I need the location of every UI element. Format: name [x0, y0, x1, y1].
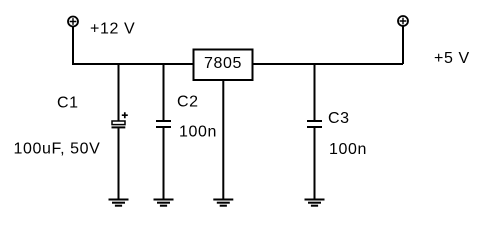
wire output bus to C3 — [314, 63, 316, 121]
svg-text:100n: 100n — [329, 141, 367, 158]
wire C2 to ground — [163, 128, 165, 200]
wire input bus — [72, 63, 194, 65]
wire input bus to C1 — [118, 63, 120, 121]
svg-text:C1: C1 — [57, 95, 79, 112]
terminal +5V output — [398, 16, 408, 26]
svg-text:100uF, 50V: 100uF, 50V — [14, 141, 101, 158]
capacitor C1 electrolytic (polarity +) — [112, 112, 128, 127]
wire input bus to C2 — [163, 63, 165, 121]
ground (regulator pin) — [213, 200, 233, 206]
ground (C2) — [154, 200, 174, 206]
wire 7805 ground pin to ground — [222, 80, 224, 200]
capacitor C2 — [156, 121, 171, 127]
wire from +12V terminal down to input bus — [72, 27, 74, 65]
svg-text:100n: 100n — [179, 124, 217, 141]
wire riser to +5V terminal — [402, 26, 404, 64]
capacitor C3 — [307, 121, 322, 127]
ground (C1) — [109, 200, 129, 206]
regulator U1 7805 — [194, 50, 253, 81]
ground (C3) — [305, 200, 325, 206]
terminal +12V input — [68, 17, 78, 27]
wire C3 to ground — [314, 128, 316, 200]
wire C1 to ground — [118, 128, 120, 199]
wire output bus — [253, 63, 404, 65]
svg-text:C2: C2 — [177, 94, 199, 111]
svg-text:C3: C3 — [328, 110, 350, 127]
svg-text:7805: 7805 — [204, 55, 242, 72]
svg-text:+12 V: +12 V — [90, 21, 135, 38]
svg-text:+5 V: +5 V — [434, 50, 470, 67]
